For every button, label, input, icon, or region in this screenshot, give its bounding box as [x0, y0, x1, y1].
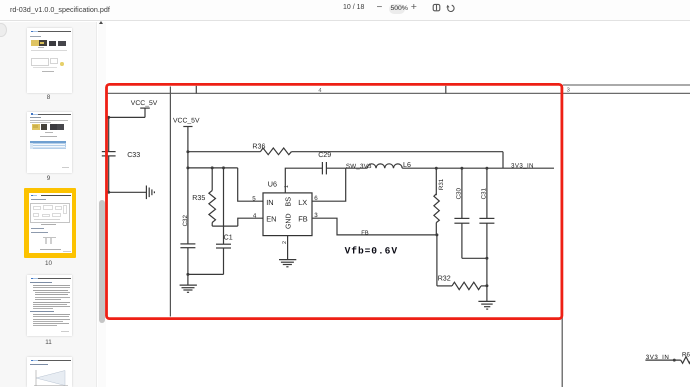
svg-text:R35: R35 [192, 194, 205, 202]
wire pin3 FB to feedback node [312, 218, 437, 235]
ground symbol right [478, 301, 495, 309]
thumbnail page 9 [27, 112, 72, 174]
wire BS riser to C29 [285, 168, 322, 193]
sheet top border outer line [563, 84, 690, 86]
node junction C31 top [485, 167, 488, 170]
U6 pin label LX [298, 198, 307, 207]
sheet right border [561, 85, 563, 387]
op-amp / regulator U6 body [263, 179, 312, 235]
wire rail to R36 [188, 151, 261, 153]
wire VCC vertical down to IN node row [186, 152, 189, 170]
capacitor C33 [102, 151, 140, 159]
capacitor C31 [479, 168, 494, 301]
power flag VCC_5V (left, C33 branch) [131, 100, 158, 118]
thumbnail sidebar [0, 22, 97, 387]
resistor R32 (horizontal) [437, 235, 489, 290]
sheet top border inner line [106, 92, 690, 94]
svg-text:BS: BS [284, 197, 293, 207]
capacitor C29 [318, 151, 331, 175]
thumbnail page 11 [27, 275, 72, 337]
wire top rail drop to 3V3_IN rail [502, 152, 504, 169]
svg-text:C1: C1 [224, 234, 233, 242]
wire VCC_5V flag to C33 branch top [109, 116, 145, 118]
toolbar [0, 0, 690, 21]
zone label 3 [567, 87, 570, 94]
wire pin4 EN [238, 218, 263, 226]
wire C1 bottom to ground node [186, 273, 223, 276]
svg-text:C33: C33 [127, 151, 140, 159]
wire C33 down to ground run [107, 156, 110, 194]
U6 pin label EN [266, 215, 276, 224]
pin number 4 [253, 213, 257, 220]
svg-text:EN: EN [266, 215, 276, 224]
thumbnail page 8 [27, 28, 72, 93]
wire down to pin5 [238, 168, 263, 201]
svg-text:VCC_5V: VCC_5V [173, 118, 200, 125]
sheet left border [169, 87, 171, 317]
wire SW node to L6 [346, 167, 368, 169]
svg-text:4: 4 [253, 213, 257, 220]
zone label 4 [318, 88, 322, 94]
power flag VCC_5V (main rail) [173, 118, 200, 152]
node junction at top of C33 [107, 116, 110, 119]
ground symbol below U6 [279, 260, 296, 267]
svg-text:C29: C29 [318, 151, 331, 159]
red annotation rectangle [107, 84, 562, 318]
node junction FB/R31/R32 [435, 233, 438, 236]
wire pin2 GND down [287, 236, 289, 260]
wire L6 to 3V3_IN [402, 167, 554, 169]
node junction C30 top [460, 167, 463, 170]
U6 pin label GND (rotated) [286, 213, 293, 229]
U6 pin label FB [298, 215, 308, 224]
U6 pin label IN [266, 198, 273, 207]
pin number 3 [314, 212, 318, 219]
wire 3V3_IN stub [645, 359, 680, 362]
ground symbol below C32 [180, 285, 197, 292]
svg-text:Vfb=0.6V: Vfb=0.6V [345, 246, 398, 257]
wire IN node row horizontal [188, 167, 238, 169]
thumbnail page 10 selected with yellow border [24, 188, 77, 258]
pin 1 number [284, 185, 290, 188]
wire across to sideways ground [109, 191, 147, 193]
svg-text:R31: R31 [438, 178, 445, 190]
svg-text:3: 3 [314, 212, 318, 219]
net label 3V3_IN [511, 162, 534, 169]
svg-text:C31: C31 [480, 187, 487, 199]
value label Vfb=0.6V [345, 246, 398, 257]
pin number 5 [252, 196, 256, 203]
thumbnail page 12 (clipped) [27, 357, 72, 387]
pin number 6 [314, 195, 318, 202]
wire pin6 LX up to SW node [312, 168, 346, 201]
svg-text:3V3_IN: 3V3_IN [511, 162, 534, 169]
resistor R35 [192, 168, 215, 226]
wire C30 bottom across [462, 257, 489, 260]
wire R35 bottom to EN drop [212, 225, 238, 227]
wire down to C33 [108, 117, 110, 151]
net label 3V3_IN (lower-right snippet) [646, 354, 669, 361]
wire R36 to top-right corner [291, 151, 503, 153]
resistor R31 (vertical) [434, 168, 445, 235]
svg-text:3: 3 [567, 87, 570, 94]
U6 pin label BS (rotated) [284, 197, 293, 207]
net label FB [361, 231, 369, 237]
ground (sideways earth) for C33 [146, 186, 154, 200]
resistor R36 [252, 142, 291, 154]
node junction C1 top [222, 166, 225, 169]
svg-text:5: 5 [252, 196, 256, 203]
node junction R35 top [211, 166, 214, 169]
wire C29 to SW node [326, 167, 345, 169]
node junction VCC rail [186, 150, 189, 153]
capacitor C30 [454, 168, 469, 258]
svg-text:R32: R32 [438, 275, 451, 283]
inductor L6 [367, 161, 411, 169]
svg-text:6: 6 [314, 195, 318, 202]
svg-text:LX: LX [298, 198, 307, 207]
capacitor C1 [216, 168, 233, 275]
svg-text:FB: FB [361, 231, 369, 237]
zone tick at x=196 [195, 86, 197, 94]
svg-text:FB: FB [298, 215, 308, 224]
zone tick at x=446 [445, 86, 447, 94]
svg-text:IN: IN [266, 198, 273, 207]
net label SW_3V3 [346, 163, 372, 170]
sidebar scrollbar [98, 22, 106, 387]
pin number 2 (rotated) [282, 241, 288, 244]
svg-text:VCC_5V: VCC_5V [131, 100, 158, 107]
capacitor C32 [180, 168, 195, 285]
svg-text:GND: GND [286, 213, 293, 229]
resistor R6 (partial at edge) [681, 351, 690, 363]
svg-text:U6: U6 [268, 179, 277, 188]
node junction R31 top [435, 167, 438, 170]
svg-text:2: 2 [282, 241, 288, 244]
